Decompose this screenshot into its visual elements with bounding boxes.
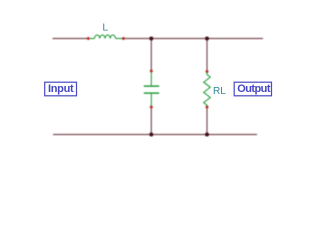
svg-text:RL: RL	[213, 86, 226, 97]
svg-text:L: L	[102, 21, 108, 33]
svg-text:Output: Output	[237, 83, 271, 95]
svg-text:Input: Input	[48, 83, 74, 95]
